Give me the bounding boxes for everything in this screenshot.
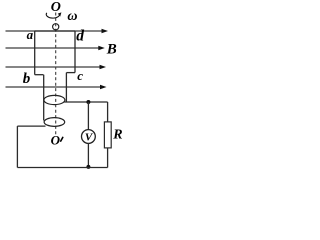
field line B2 bbox=[6, 47, 100, 49]
arrowhead line B3 bbox=[100, 65, 107, 69]
axle circle (top pivot) bbox=[53, 24, 59, 30]
coil top edge a-d bbox=[35, 30, 75, 32]
svg-text:b: b bbox=[23, 71, 31, 87]
svg-text:O: O bbox=[51, 133, 61, 148]
coil left lead wire down to lower slip ring bbox=[43, 75, 45, 121]
wire: left vertical bbox=[16, 126, 18, 167]
wire: bottom horizontal bbox=[17, 167, 107, 169]
coil right edge d-c bbox=[74, 31, 76, 73]
arrowhead line B2 bbox=[98, 46, 105, 50]
coil bottom-left segment bbox=[35, 74, 44, 76]
arrowhead line B1 bbox=[102, 29, 109, 33]
coil bottom-right segment bbox=[66, 72, 75, 74]
svg-text:d: d bbox=[76, 27, 84, 44]
svg-text:a: a bbox=[27, 27, 34, 42]
wire: right vertical upper (to resistor) bbox=[107, 102, 109, 122]
svg-text:c: c bbox=[77, 68, 83, 83]
dashed rotation axis OO' bbox=[55, 13, 57, 135]
rotation arc arrowhead bbox=[58, 12, 62, 16]
arrowhead line B4 bbox=[100, 85, 107, 89]
svg-text:B: B bbox=[106, 41, 117, 57]
coil frame abcd bbox=[35, 31, 75, 121]
coil right lead wire down to upper slip ring bbox=[65, 73, 67, 102]
field line B1 bbox=[6, 31, 103, 87]
rotation arc with arrow bbox=[46, 13, 59, 18]
wire: lower brush to left branch bbox=[17, 125, 45, 127]
lower slip ring bbox=[44, 118, 65, 127]
voltmeter circle bbox=[82, 130, 96, 144]
resistor R box bbox=[104, 122, 111, 148]
upper slip ring bbox=[44, 95, 65, 104]
wire: voltmeter branch lower bbox=[87, 143, 89, 167]
svg-text:R: R bbox=[112, 127, 122, 142]
wire: upper brush to right branch bbox=[64, 101, 107, 103]
svg-text:ω: ω bbox=[67, 9, 77, 24]
wire: voltmeter branch upper bbox=[87, 102, 89, 130]
wire: right vertical lower (resistor to bottom) bbox=[107, 148, 109, 168]
field line B4 bbox=[6, 86, 101, 88]
coil left edge a-b bbox=[34, 31, 36, 75]
svg-text:O: O bbox=[51, 0, 61, 15]
field line B3 bbox=[6, 66, 101, 68]
junction dot (top) bbox=[86, 100, 90, 104]
prime mark of O' bbox=[61, 137, 63, 141]
junction dot (bottom) bbox=[86, 165, 90, 169]
